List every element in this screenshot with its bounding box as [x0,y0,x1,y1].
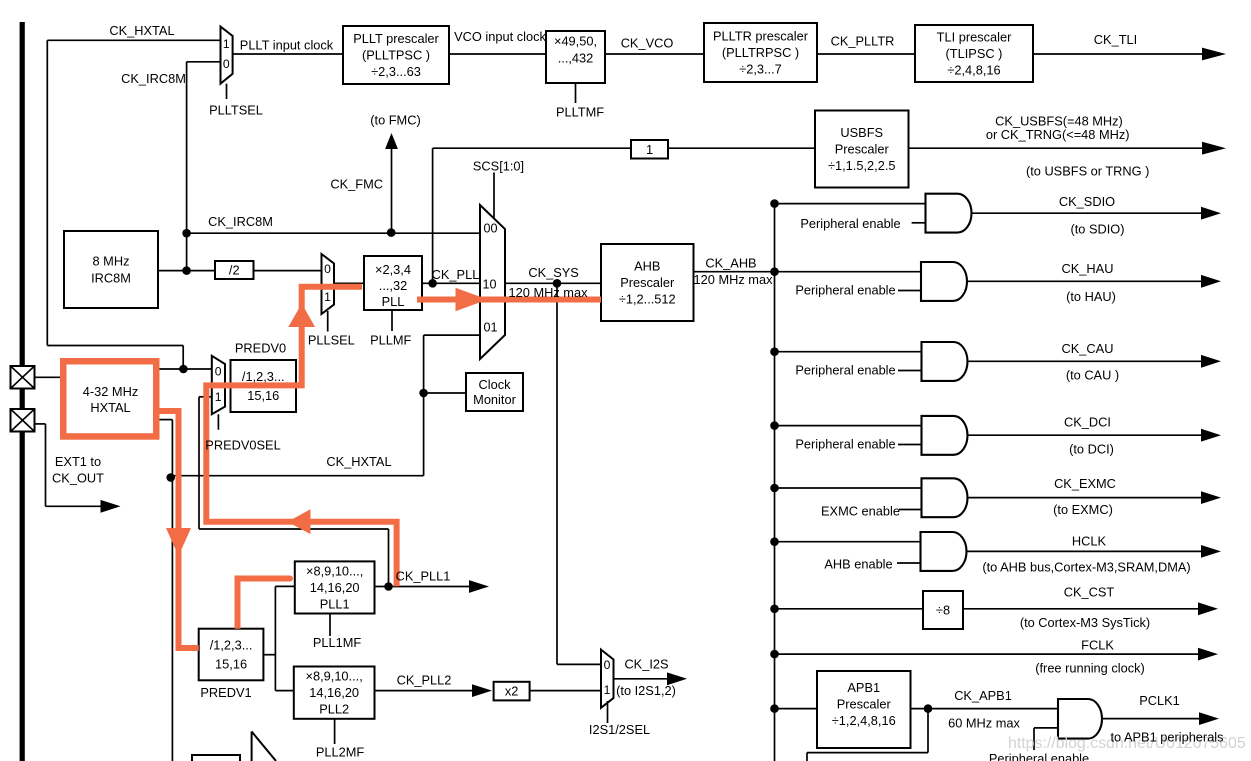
svg-text:(to I2S1,2): (to I2S1,2) [616,683,676,698]
wire PLLMF stub below PLL box [391,310,393,331]
svg-text:15,16: 15,16 [247,388,279,403]
svg-text:PREDV0: PREDV0 [235,341,286,356]
svg-text:CK_IRC8M: CK_IRC8M [208,214,273,229]
junction rail CK_APB1 [770,704,779,713]
svg-text:/1,2,3...: /1,2,3... [210,638,253,653]
block IRC8M oscillator [64,231,158,308]
wire CK_SYS tap down to I2S mux input 0 [557,283,601,664]
wire HCLK gate top input [775,541,921,543]
orange flow arrow left [288,509,311,534]
svg-text:120 MHz max: 120 MHz max [694,272,774,287]
svg-text:÷1,2,4,8,16: ÷1,2,4,8,16 [832,713,896,728]
svg-text:0: 0 [604,658,611,672]
wire CK_IRC8M riser to PLLTSEL mux input 0 [187,62,221,271]
wire HCLK output with arrow [966,545,1221,558]
block USBFS prescaler [815,111,909,188]
svg-text:(TLIPSC ): (TLIPSC ) [946,46,1003,61]
wire CK_APB1 (APB1 prescaler to PCLK1 gate) [911,708,1059,710]
svg-text:(free running clock): (free running clock) [1035,661,1145,676]
wire PCLK1 output with arrow [1102,712,1219,725]
wire HXTAL output to PREDV0 mux input 0 [160,368,212,370]
junction CK_PLL1 tap [384,582,393,591]
orange highlight wire PREDV1 to PLL1 [238,579,291,629]
wire PLLT input clock (mux to PLLT prescaler) [233,53,343,55]
svg-text:÷2,3...7: ÷2,3...7 [739,62,782,77]
wire EXMC enable input [899,509,922,511]
svg-text:VCO input clock: VCO input clock [454,29,546,44]
block PLL2 multiplier [294,667,375,719]
svg-text:CK_IRC8M: CK_IRC8M [121,71,186,86]
svg-text:I2S1/2SEL: I2S1/2SEL [589,722,650,737]
orange flow arrow down [166,528,191,556]
svg-text:(to USBFS or TRNG ): (to USBFS or TRNG ) [1026,163,1149,178]
AND gate CK_DCI peripheral enable [922,416,968,455]
svg-text:CK_VCO: CK_VCO [621,36,674,51]
junction CK_IRC8M tap [182,229,191,238]
svg-text:÷8: ÷8 [936,603,950,618]
AND gate CK_SDIO peripheral enable [926,194,972,233]
svg-text:1: 1 [646,142,653,157]
svg-text:PREDV0SEL: PREDV0SEL [205,437,280,452]
wire CK_PLL1 output with arrow [375,580,490,593]
wire CK_HXTAL mid (to SCS mux input 01 and clock monitor) [172,335,480,476]
wire CK_SDIO gate top input [775,203,926,205]
mux SCS system clock selector [480,205,505,359]
svg-text:PLLT prescaler: PLLT prescaler [353,31,439,46]
svg-text:CK_I2S: CK_I2S [624,657,668,672]
junction rail CK_SDIO [770,199,779,208]
junction rail CK_DCI [770,421,779,430]
svg-text:(PLLTRPSC ): (PLLTRPSC ) [722,45,799,60]
svg-text:HXTAL: HXTAL [90,400,130,415]
wire CK_CST through divide-by-8 with arrow [775,602,1219,615]
junction CK_FMC tap [387,228,396,237]
wire clock monitor tap [424,392,466,394]
svg-text:FCLK: FCLK [1081,638,1114,653]
svg-text:PLLTMF: PLLTMF [556,105,604,120]
wire AHB enable input [897,562,921,564]
wire CK_HAU output with arrow [967,275,1222,288]
svg-text:PLL1MF: PLL1MF [313,635,362,650]
svg-text:(PLLTPSC ): (PLLTPSC ) [362,48,430,63]
svg-text:AHB: AHB [634,258,660,273]
wire rail to APB1 prescaler [775,708,818,710]
svg-text:x2: x2 [505,684,519,699]
wire CK_SDIO output with arrow [971,207,1221,220]
svg-text:0: 0 [215,364,222,378]
wire OSC-IN pin to HXTAL [35,376,61,378]
svg-text:PLL2: PLL2 [319,702,349,717]
junction rail CK_CST [770,605,779,614]
svg-text:TLI prescaler: TLI prescaler [937,29,1012,44]
wire PCLK1 gate enable input [1034,728,1058,750]
block PLLTR prescaler PLLTRPSC [704,23,817,82]
wire CK_PLL tap to USBFS prescaler via 1 box [433,148,815,283]
junction rail HCLK [770,537,779,546]
block PLL1 multiplier [295,561,375,613]
svg-text:...,32: ...,32 [379,278,407,293]
svg-text:CK_HXTAL: CK_HXTAL [326,454,391,469]
svg-text:CK_AHB: CK_AHB [705,256,756,271]
svg-text:(to EXMC): (to EXMC) [1053,502,1113,517]
svg-text:1: 1 [223,37,230,51]
block PLLT prescaler PLLTPSC [343,26,449,84]
wire CK_VCO (x49 multiplier to PLLTR prescaler) [605,53,704,55]
svg-text:CK_FMC: CK_FMC [330,177,383,192]
svg-text:SCS[1:0]: SCS[1:0] [473,159,524,174]
svg-text:Peripheral enable: Peripheral enable [795,283,895,298]
block divide-by-8 [923,591,963,629]
svg-text:or CK_TRNG(<=48 MHz): or CK_TRNG(<=48 MHz) [986,127,1130,142]
mux PLLSEL [322,254,335,314]
svg-text:(to AHB bus,Cortex-M3,SRAM,DMA: (to AHB bus,Cortex-M3,SRAM,DMA) [982,560,1190,575]
svg-text:PLL2MF: PLL2MF [316,745,365,760]
svg-text:PLL: PLL [382,294,405,309]
wire CK_SYS (SCS mux to AHB prescaler) [505,282,601,284]
orange highlight wire CK_PLL1 back to PREDV0 and PLL [206,287,396,587]
svg-text:PREDV1: PREDV1 [200,685,251,700]
svg-text:CK_TLI: CK_TLI [1094,32,1137,47]
svg-text:(to CAU ): (to CAU ) [1066,368,1119,383]
wire PLL2MF stub [334,719,336,744]
wire CK_APB1 branch down to APB2 section [807,709,928,761]
svg-text:PLLT input clock: PLLT input clock [240,37,334,52]
svg-text:CK_CST: CK_CST [1064,585,1115,600]
orange highlight wire CK_SYS to AHB prescaler [417,297,601,303]
wire CK_HAU gate enable input [898,290,921,292]
svg-text:CK_OUT: CK_OUT [52,471,104,486]
AND gate HCLK AHB enable [921,532,967,571]
mux PLLTSEL [221,27,233,99]
wire FCLK output with arrow [775,648,1219,661]
svg-text:CK_PLL: CK_PLL [432,267,480,282]
wire CK_SDIO gate enable input [912,222,926,224]
wire /2 divider to PLLSEL mux input 0 [254,270,322,272]
svg-text:14,16,20: 14,16,20 [309,685,359,700]
svg-text:00: 00 [483,221,497,235]
wire IRC8M out to /2 divider [158,270,215,272]
wire CK_TLI output with arrow [1033,48,1226,61]
crystal pin OSC-OUT [11,409,35,432]
svg-text:1: 1 [324,290,331,304]
junction HXTAL output tap [179,365,188,374]
svg-text:(to FMC): (to FMC) [370,113,420,128]
svg-text:×8,9,10...,: ×8,9,10..., [306,563,363,578]
junction clock monitor tap [419,389,428,398]
svg-text:×2,3,4: ×2,3,4 [375,262,411,277]
AND gate CK_HAU peripheral enable [921,262,967,301]
svg-text:CK_HXTAL: CK_HXTAL [109,23,174,38]
svg-text:IRC8M: IRC8M [91,270,131,285]
AND gate CK_EXMC enable [922,478,968,517]
svg-text:to APB1 peripherals: to APB1 peripherals [1110,730,1223,745]
wire CK_HXTAL top (HXTAL riser to PLLTSEL mux input 1) [47,40,220,369]
wire x2 multiplier to I2S mux input 1 [530,690,601,692]
svg-text:PLL1: PLL1 [320,596,350,611]
svg-text:10: 10 [482,277,496,291]
wire HXTAL lower output down-left rail [160,420,173,761]
svg-text:(to SDIO): (to SDIO) [1070,222,1124,237]
svg-text:CK_APB1: CK_APB1 [954,688,1012,703]
wire PLLSEL mux output to PLL [334,282,364,284]
junction rail CK_EXMC [770,484,779,493]
junction rail CK_AHB [770,267,779,276]
wire I2S1/2SEL stub [607,701,609,723]
block unity divider 1 [631,140,668,159]
junction rail FCLK [770,650,779,659]
wire CK_I2S output with arrow [614,672,688,685]
svg-text:CK_EXMC: CK_EXMC [1054,476,1116,491]
wire EXT1 to CK_OUT with arrow [35,424,121,513]
wire CK_IRC8M mid (to SCS mux input 00) [187,232,480,234]
svg-text:120 MHz max: 120 MHz max [509,285,589,300]
orange flow arrow up [288,304,315,328]
AND gate PCLK1 peripheral enable [1058,699,1102,739]
svg-text:Peripheral enable: Peripheral enable [795,436,895,451]
svg-text:Peripheral enable: Peripheral enable [989,751,1089,761]
mux PREDV0SEL [212,356,225,415]
svg-text:Clock: Clock [479,377,512,392]
svg-text:PLLTSEL: PLLTSEL [209,103,263,118]
wire CK_DCI gate enable input [898,444,922,446]
block clock monitor [466,373,523,411]
junction rail CK_CAU [770,347,779,356]
wire PREDV0SEL stub [217,414,219,429]
junction IRC8M /2 tap [182,266,191,275]
orange highlight wire HXTAL to PREDV1 [160,411,199,648]
AND gate CK_CAU peripheral enable [922,342,968,381]
wire CK_EXMC gate top input [775,487,922,489]
junction CK_PLL to USBFS tap [428,279,437,288]
wire CK_CAU gate enable input [898,370,922,372]
svg-text:0: 0 [223,57,230,71]
svg-text:APB1: APB1 [847,680,880,695]
wire CK_PLLTR (PLLTR prescaler to TLI prescaler) [817,53,915,55]
svg-text:CK_HAU: CK_HAU [1062,261,1114,276]
svg-text:Peripheral enable: Peripheral enable [800,216,900,231]
svg-text:8 MHz: 8 MHz [93,254,130,269]
wire PREDV0 mux output into PREDV0 divider [225,384,231,386]
block PLL multiplier [364,256,422,310]
svg-text:÷1,1.5,2,2.5: ÷1,1.5,2,2.5 [828,158,896,173]
wire CK_DCI output with arrow [967,429,1221,442]
svg-text:CK_PLL2: CK_PLL2 [397,673,452,688]
junction CK_SYS to I2S tap [553,279,562,288]
block AHB prescaler [601,244,694,321]
svg-text:CK_DCI: CK_DCI [1064,415,1111,430]
block PREDV0 divider [231,360,297,412]
svg-text:PLLSEL: PLLSEL [308,332,355,347]
svg-text:15,16: 15,16 [215,656,247,671]
svg-text:÷2,3...63: ÷2,3...63 [371,64,421,79]
wire PREDV0 divider output to PLLSEL mux input 1 [296,287,322,385]
svg-text:/2: /2 [229,263,240,278]
svg-text:0: 0 [324,262,331,276]
orange flow arrow right [456,288,488,312]
box cut off at bottom left [192,755,240,761]
svg-text:CK_SYS: CK_SYS [528,265,579,280]
wire AHB rail vertical [774,204,776,761]
crystal pin OSC-IN [11,366,35,389]
svg-text:÷1,2...512: ÷1,2...512 [619,292,676,307]
wire CK_CAU output with arrow [967,355,1221,368]
svg-text:CK_SDIO: CK_SDIO [1059,194,1115,209]
wire CK_PLL (PLL to SCS mux input 10) [422,282,480,284]
svg-text:60 MHz max: 60 MHz max [948,716,1020,731]
svg-text:4-32 MHz: 4-32 MHz [83,384,138,399]
svg-text:1: 1 [604,683,611,697]
svg-text:Monitor: Monitor [473,392,516,407]
svg-text:14,16,20: 14,16,20 [310,580,360,595]
svg-text:(to Cortex-M3 SysTick): (to Cortex-M3 SysTick) [1020,615,1150,630]
svg-text:Peripheral enable: Peripheral enable [795,363,895,378]
svg-text:(to DCI): (to DCI) [1069,442,1114,457]
wire CK_PLL2 to x2 multiplier with arrow [375,684,493,697]
block APB1 prescaler [817,671,911,748]
svg-text:CK_PLL1: CK_PLL1 [396,569,451,584]
svg-text:Prescaler: Prescaler [620,275,675,290]
svg-text:EXMC enable: EXMC enable [821,504,900,519]
wire PLLTMF stub below x49 box [575,83,577,103]
svg-text:EXT1 to: EXT1 to [55,454,101,469]
svg-text:CK_CAU: CK_CAU [1062,341,1114,356]
svg-text:(to HAU): (to HAU) [1066,289,1116,304]
svg-text:×49,50,: ×49,50, [554,34,597,49]
wire CK_FMC up-arrow to FMC [385,133,398,233]
svg-text:÷2,4,8,16: ÷2,4,8,16 [947,63,1000,78]
block x2 multiplier [494,682,530,701]
svg-text:Prescaler: Prescaler [835,142,890,157]
wire CK_AHB (AHB prescaler to rail and CK_HAU gate) [694,271,922,273]
wire PLL1MF stub [329,614,331,637]
wire CK_CAU gate top input [775,351,922,353]
svg-text:PLLMF: PLLMF [370,332,411,347]
svg-text:PCLK1: PCLK1 [1139,693,1180,708]
svg-text:PLLTR prescaler: PLLTR prescaler [713,28,809,43]
wire PLLSEL stub below PLLSEL mux [327,311,329,332]
block HXTAL oscillator (orange highlighted) [63,361,156,436]
block TLI prescaler TLIPSC [915,25,1033,82]
svg-text:01: 01 [483,320,497,334]
junction CK_APB1 branch [924,704,933,713]
svg-text:/1,2,3...: /1,2,3... [242,369,285,384]
wire PREDV0 mux input 1 riser from CK_PLL1 net [199,397,389,587]
wire CK_DCI gate top input [775,425,922,427]
wire SCS[1:0] control into SCS mux [493,173,495,219]
junction CK_HXTAL tap [166,473,175,482]
wire PREDV1 output net to PLL1 and PLL2 [263,586,294,690]
wire CK_USBFS output with arrow [909,142,1227,155]
block PREDV1 divider [199,629,264,681]
wire VCO input clock (PLLT prescaler to x49 multiplier) [449,53,546,55]
svg-text:×8,9,10...,: ×8,9,10..., [306,669,363,684]
mux cut off at bottom (CK_OUT selector) [252,732,276,761]
svg-text:CK_PLLTR: CK_PLLTR [831,34,895,49]
mux I2S1/2SEL [601,650,614,708]
block divide-by-2 [215,261,254,279]
svg-text:AHB enable: AHB enable [824,557,892,572]
svg-text:CK_USBFS(=48 MHz): CK_USBFS(=48 MHz) [995,113,1123,128]
block PLLT multiplier x49..432 [546,31,605,83]
svg-text:...,432: ...,432 [558,51,594,66]
svg-text:1: 1 [215,390,222,404]
svg-text:USBFS: USBFS [840,125,883,140]
svg-text:Prescaler: Prescaler [837,697,892,712]
wire CK_EXMC output with arrow [967,491,1221,504]
pin header rail (thick vertical bus at far left) [20,22,25,761]
svg-text:HCLK: HCLK [1072,534,1107,549]
